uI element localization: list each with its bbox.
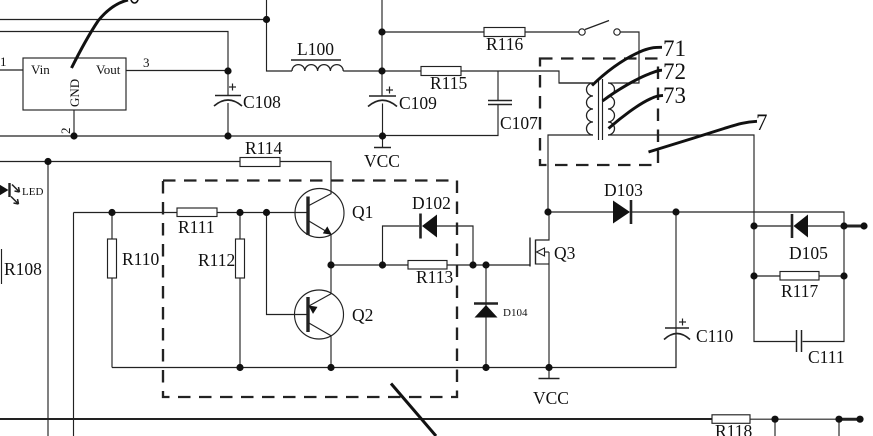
capacitor C107 [488, 71, 512, 105]
svg-text:L100: L100 [297, 39, 334, 59]
wire Q1 emitter to node [330, 235, 332, 265]
callout leader 71 [592, 47, 662, 85]
resistor R114 [240, 158, 280, 167]
resistor R110 [108, 213, 117, 368]
wire R115 row [382, 70, 421, 72]
svg-text:C107: C107 [500, 113, 538, 133]
resistor R117 [754, 272, 844, 281]
svg-text:R118: R118 [715, 421, 753, 436]
wire pin2 [73, 110, 75, 136]
diode D103 [548, 200, 844, 276]
svg-text:71: 71 [663, 36, 686, 61]
svg-text:R112: R112 [198, 250, 235, 270]
svg-text:C109: C109 [399, 93, 437, 113]
svg-text:VCC: VCC [364, 151, 400, 171]
diode D104 [474, 265, 498, 368]
wire base row y212 [74, 212, 308, 214]
dashed control block box [163, 181, 457, 398]
wire Q2 base branch [267, 213, 309, 315]
callout leader 72 [603, 70, 663, 101]
transistor Q1 [295, 189, 344, 238]
wire top line 2 [0, 32, 228, 72]
resistor R111 [177, 208, 217, 217]
wire vertical to L100 [267, 0, 293, 71]
svg-text:R114: R114 [245, 138, 283, 158]
wire node row y265 [331, 264, 408, 266]
resistor R108 edge [1, 249, 3, 284]
terminal pad bottom [839, 418, 860, 421]
callout leader bottom block [391, 384, 436, 436]
diode D102 branch [383, 226, 420, 265]
resistor R115 [421, 67, 461, 76]
wire C107 node into transformer [498, 71, 593, 83]
svg-text:C108: C108 [243, 92, 281, 112]
wire vertical x382 from top [381, 0, 383, 96]
svg-text:R108: R108 [4, 259, 42, 279]
terminal pad right [844, 225, 864, 228]
wire ground rail y136 [0, 135, 383, 137]
svg-text:72: 72 [663, 59, 686, 84]
capacitor C108 [214, 84, 242, 137]
svg-text:R116: R116 [486, 34, 524, 54]
wire R115 to C107 node [461, 70, 498, 72]
svg-text:D102: D102 [412, 193, 451, 213]
wire bottom rail y367 [112, 328, 676, 368]
wire vertical x74 long [73, 213, 75, 436]
wire switch to transformer [615, 32, 640, 83]
wire bottom bus thick [0, 418, 712, 420]
resistor R116 [484, 28, 525, 37]
callout leader 7 [649, 121, 758, 152]
switch S1 [579, 21, 620, 36]
wire stub below x839 [838, 419, 840, 436]
callout leader to regulator [72, 0, 129, 68]
transistor Q3 mosfet [530, 212, 549, 368]
wire vertical x48 [47, 162, 49, 436]
wire top line 1 [0, 19, 267, 21]
svg-text:Vin: Vin [31, 62, 50, 77]
dashed transformer box [540, 59, 658, 166]
regulator U1 box [23, 58, 126, 110]
svg-text:Q2: Q2 [352, 305, 373, 325]
resistor R112 [236, 213, 245, 368]
svg-text:1: 1 [0, 54, 7, 69]
wire pin3 Vout [126, 70, 228, 72]
wire R114 row [0, 161, 240, 163]
wire bus right thin [750, 418, 839, 420]
diode D102 [421, 214, 474, 266]
wire pin1 to Vin [0, 69, 23, 71]
svg-text:Q1: Q1 [352, 202, 373, 222]
transformer T1 core [599, 79, 603, 140]
wire Q2 emitter top [330, 265, 332, 294]
wire R116 to switch [525, 31, 579, 33]
svg-text:LED: LED [22, 186, 43, 198]
svg-text:R110: R110 [122, 249, 160, 269]
transformer T1 right winding [608, 83, 754, 330]
transistor Q2 [295, 290, 344, 339]
wire Q2 collector bottom [330, 336, 332, 368]
svg-text:Vout: Vout [96, 62, 121, 77]
svg-text:D104: D104 [503, 307, 528, 319]
svg-text:7: 7 [756, 110, 768, 135]
resistor R113 [408, 261, 447, 270]
diode D105 [754, 214, 844, 238]
transformer T1 left winding [548, 83, 593, 212]
resistor R118 [712, 415, 750, 424]
wire C108 branch [227, 71, 229, 95]
svg-text:D103: D103 [604, 180, 643, 200]
svg-text:R117: R117 [781, 281, 819, 301]
wire stub below x775 [774, 419, 776, 436]
label fragment top [131, 0, 138, 3]
inductor L100 [291, 60, 343, 71]
ground VCC under Q3 [539, 368, 560, 379]
capacitor C110 [664, 212, 690, 368]
svg-text:R113: R113 [416, 267, 454, 287]
svg-text:Q3: Q3 [554, 243, 576, 263]
svg-text:VCC: VCC [533, 388, 569, 408]
LED D100 [0, 183, 20, 205]
svg-text:2: 2 [58, 128, 73, 135]
capacitor C109 [368, 87, 397, 137]
svg-text:R115: R115 [430, 73, 468, 93]
wire R113 to gate [447, 264, 530, 266]
svg-text:GND: GND [67, 79, 82, 107]
svg-text:C111: C111 [808, 347, 845, 367]
ground VCC under C109 [374, 136, 391, 148]
wire rail to C107 bottom [383, 105, 498, 136]
wire L100 to node [343, 70, 382, 72]
callout leader 73 [609, 95, 664, 128]
svg-text:C110: C110 [696, 326, 734, 346]
svg-text:R111: R111 [178, 217, 215, 237]
svg-text:73: 73 [663, 83, 686, 108]
wire R116 branch [382, 31, 484, 33]
capacitor C111 [754, 276, 844, 352]
wire R114 to Q1 collector [280, 162, 331, 195]
svg-text:D105: D105 [789, 243, 828, 263]
svg-text:3: 3 [143, 55, 150, 70]
